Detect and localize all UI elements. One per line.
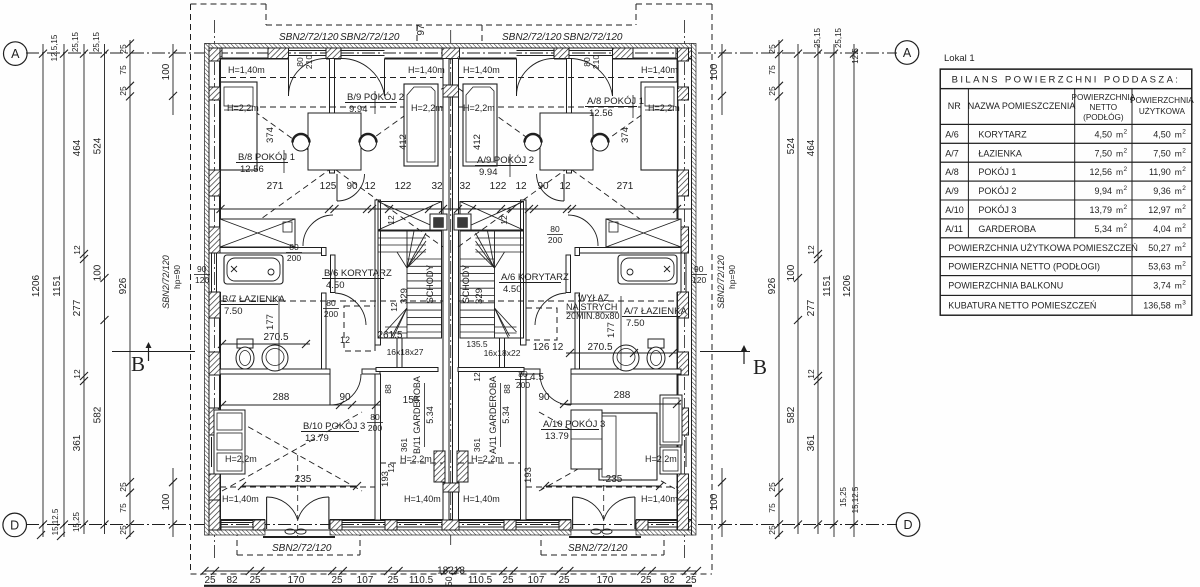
- marker circle A left: [4, 42, 28, 66]
- svg-text:15,12.5: 15,12.5: [51, 508, 60, 535]
- svg-text:100: 100: [709, 493, 720, 510]
- svg-text:120: 120: [195, 275, 209, 285]
- svg-text:25: 25: [118, 86, 128, 96]
- svg-text:2: 2: [1124, 204, 1128, 211]
- door arc A bathroom: [535, 293, 566, 325]
- dashed roof X unit B top rooms: [222, 88, 443, 247]
- svg-text:288: 288: [614, 390, 631, 401]
- dim chain 524/100/582 right: [786, 44, 802, 534]
- svg-text:hp=90: hp=90: [727, 265, 737, 289]
- svg-text:1206: 1206: [31, 274, 42, 297]
- door leaf A bathroom: [566, 255, 571, 293]
- svg-text:m: m: [1175, 129, 1182, 139]
- right wall insulation strip: [692, 44, 697, 536]
- svg-text:A: A: [903, 46, 912, 60]
- svg-text:H=2,2m: H=2,2m: [225, 454, 257, 464]
- SBN rotated label right margin: [716, 255, 737, 309]
- label B/7 LAZIENKA: [220, 294, 285, 317]
- svg-text:H=1,40m: H=1,40m: [641, 494, 678, 504]
- svg-text:200: 200: [368, 423, 382, 433]
- mid dim 135.5: [466, 339, 488, 349]
- chimney black square A: [454, 214, 471, 230]
- svg-text:12.56: 12.56: [240, 164, 264, 175]
- svg-text:B/8 POKÓJ 1: B/8 POKÓJ 1: [238, 152, 295, 163]
- roof height dashed line H=1.40 top rooms: [220, 77, 678, 79]
- svg-text:POKÓJ 2: POKÓJ 2: [978, 186, 1016, 196]
- svg-text:13,79: 13,79: [1089, 205, 1112, 215]
- wall A8 bottom: [575, 248, 681, 254]
- svg-text:210: 210: [304, 55, 314, 69]
- label A/10 POKOJ 3: [541, 419, 605, 442]
- svg-text:D: D: [10, 519, 19, 533]
- svg-text:H=1,40m: H=1,40m: [228, 65, 265, 75]
- svg-text:9,94: 9,94: [1094, 186, 1112, 196]
- table summary row 2: [940, 257, 1192, 276]
- svg-text:20MIN.80x80: 20MIN.80x80: [566, 311, 620, 321]
- svg-text:KORYTARZ: KORYTARZ: [978, 129, 1027, 139]
- svg-text:288: 288: [273, 392, 290, 403]
- svg-text:m: m: [1175, 243, 1182, 253]
- svg-text:SBN2/72/120: SBN2/72/120: [161, 255, 171, 309]
- label A/11 GARDEROBA rotated: [488, 376, 511, 454]
- svg-text:25: 25: [502, 575, 514, 586]
- svg-text:412: 412: [398, 134, 409, 150]
- SBN labels top B: [279, 32, 400, 43]
- dim 12 rotated misc: [386, 215, 509, 473]
- wall B garderoba top: [376, 368, 438, 372]
- svg-text:5.34: 5.34: [425, 406, 435, 424]
- svg-text:1151: 1151: [52, 275, 63, 297]
- svg-text:277: 277: [806, 299, 817, 316]
- dim chain 100 short top right: [709, 44, 726, 115]
- svg-text:412: 412: [472, 134, 483, 150]
- party wall double leaf: [443, 59, 459, 521]
- party wall axis vertical: [450, 30, 452, 545]
- label B/10 POKOJ 3: [301, 421, 365, 444]
- staircase B (schody): [378, 231, 442, 338]
- svg-text:53,63: 53,63: [1148, 262, 1171, 272]
- svg-text:25: 25: [767, 44, 777, 54]
- svg-text:361: 361: [399, 438, 409, 452]
- svg-text:m: m: [1116, 167, 1123, 177]
- label B/8 POKOJ 1: [236, 150, 295, 175]
- svg-text:270.5: 270.5: [263, 332, 288, 343]
- dim chain 1206 left: [31, 44, 47, 537]
- svg-text:170: 170: [288, 575, 305, 586]
- dim 193 rotated right: [380, 467, 534, 487]
- svg-text:12: 12: [559, 181, 571, 192]
- svg-text:32: 32: [431, 181, 443, 192]
- table row A/11: [940, 219, 1192, 238]
- svg-text:12: 12: [472, 372, 482, 382]
- svg-text:464: 464: [72, 139, 83, 156]
- wall B8 bottom: [220, 248, 326, 254]
- left wall body: [209, 48, 220, 535]
- window size 90/120 right: [691, 264, 707, 285]
- closet 90 rotated labels: [265, 225, 621, 235]
- svg-text:2: 2: [1124, 166, 1128, 173]
- svg-text:80: 80: [289, 242, 299, 252]
- svg-text:88: 88: [502, 384, 512, 394]
- dimension row y209: [209, 205, 691, 213]
- svg-text:12.5: 12.5: [851, 48, 860, 64]
- chimney black square B: [430, 214, 447, 230]
- svg-text:3,74: 3,74: [1153, 281, 1171, 291]
- axis line D (bottom): [26, 524, 897, 526]
- dim 90 200 rotated bath windows: [383, 384, 512, 394]
- svg-text:m: m: [1175, 186, 1182, 196]
- door arc B bathroom: [335, 293, 366, 325]
- table summary row 1: [940, 238, 1192, 257]
- bed B9: [404, 84, 438, 166]
- table row A/10: [940, 200, 1192, 219]
- svg-text:100: 100: [786, 264, 797, 281]
- svg-text:A/6: A/6: [945, 129, 959, 139]
- svg-text:2: 2: [1182, 261, 1186, 268]
- dim 361 rotated bottoms: [399, 438, 482, 452]
- svg-text:A/10: A/10: [945, 205, 964, 215]
- 177 rotated B: [265, 314, 276, 330]
- svg-text:25: 25: [685, 575, 697, 586]
- staircase A (schody): [460, 231, 524, 338]
- label B/6 KORYTARZ: [322, 268, 392, 291]
- closet B10: [214, 410, 245, 474]
- wall A7/A10 horizontal: [521, 369, 681, 374]
- svg-text:m: m: [1116, 205, 1123, 215]
- svg-text:2: 2: [1182, 242, 1186, 249]
- svg-text:B/11 GARDEROBA: B/11 GARDEROBA: [412, 376, 422, 454]
- svg-text:25: 25: [118, 44, 128, 54]
- SBN labels top A: [502, 32, 623, 43]
- svg-text:4.50: 4.50: [326, 280, 345, 291]
- door size 80/210 labels rotated top: [295, 55, 314, 72]
- svg-text:4.5: 4.5: [530, 372, 544, 383]
- marker circle D right: [896, 513, 920, 537]
- svg-text:m: m: [1175, 167, 1182, 177]
- 177 rotated A: [606, 322, 617, 338]
- SBN label bottom B: [272, 543, 332, 554]
- svg-text:SBN2/72/120: SBN2/72/120: [279, 32, 339, 43]
- svg-text:BILANS POWIERZCHNI PODDASZA:: BILANS POWIERZCHNI PODDASZA:: [952, 75, 1181, 86]
- wall B10/garderoba vertical: [375, 374, 381, 520]
- svg-text:H=2,2m: H=2,2m: [645, 454, 677, 464]
- dim 235 A10: [541, 474, 664, 490]
- svg-text:13.79: 13.79: [305, 433, 329, 444]
- svg-text:12: 12: [806, 369, 816, 379]
- svg-text:B/7 ŁAZIENKA: B/7 ŁAZIENKA: [222, 294, 285, 305]
- bed B8: [221, 82, 258, 170]
- toilet A7: [647, 339, 665, 369]
- svg-text:2: 2: [1182, 223, 1186, 230]
- svg-text:110.5: 110.5: [409, 575, 434, 586]
- svg-text:H=2,2m: H=2,2m: [648, 103, 680, 113]
- svg-text:H=1,40m: H=1,40m: [641, 65, 678, 75]
- svg-text:2: 2: [1182, 147, 1186, 154]
- svg-text:12: 12: [72, 245, 82, 255]
- svg-text:155: 155: [403, 395, 420, 406]
- svg-text:125: 125: [320, 181, 337, 192]
- mid dim right 270.5: [566, 342, 677, 357]
- dim chain 100 short bottom left: [161, 468, 177, 537]
- svg-text:25,15: 25,15: [92, 31, 101, 52]
- svg-text:SBN2/72/120: SBN2/72/120: [340, 32, 400, 43]
- balcony door B left leaf: [289, 59, 327, 97]
- svg-text:2: 2: [1182, 280, 1186, 287]
- svg-text:25: 25: [387, 575, 399, 586]
- left wall bathroom window: [212, 253, 217, 292]
- bottom wall windows: [221, 523, 253, 528]
- svg-text:m: m: [1175, 205, 1182, 215]
- dim chain 100 short bottom right: [709, 468, 726, 537]
- svg-text:3: 3: [1182, 299, 1186, 306]
- svg-text:7,50: 7,50: [1094, 148, 1112, 158]
- svg-text:15,12.5: 15,12.5: [851, 486, 860, 513]
- svg-text:SBN2/72/120: SBN2/72/120: [563, 32, 623, 43]
- svg-text:16x18x27: 16x18x27: [387, 347, 424, 357]
- top wall insulation strip: [205, 44, 693, 49]
- svg-text:75: 75: [767, 65, 777, 75]
- wall axis left vertical: [214, 20, 216, 560]
- svg-text:100: 100: [161, 493, 172, 510]
- stair spine continuation B: [397, 338, 402, 368]
- svg-text:A/7 ŁAZIENKA: A/7 ŁAZIENKA: [624, 306, 687, 317]
- svg-text:926: 926: [767, 277, 778, 294]
- svg-text:122: 122: [490, 181, 507, 192]
- svg-text:75: 75: [118, 65, 128, 75]
- svg-text:7.50: 7.50: [626, 318, 645, 329]
- svg-text:25,15: 25,15: [813, 27, 822, 48]
- svg-text:POKÓJ 1: POKÓJ 1: [978, 167, 1016, 177]
- label B/11 GARDEROBA rotated: [412, 376, 435, 454]
- svg-text:235: 235: [295, 474, 312, 485]
- section mark B right: [700, 345, 767, 379]
- label SCHODY B rotated: [425, 265, 435, 304]
- svg-text:120: 120: [692, 275, 706, 285]
- tiny labels bottom left: [37, 508, 81, 540]
- label A/9 POKOJ 2: [475, 154, 534, 178]
- void railing X-rect A: [460, 202, 524, 231]
- svg-text:Lokal 1: Lokal 1: [944, 53, 975, 64]
- svg-text:25: 25: [118, 525, 128, 535]
- svg-text:464: 464: [806, 139, 817, 156]
- label 329 A rotated: [474, 288, 485, 304]
- svg-text:90: 90: [339, 392, 351, 403]
- top wall hatched piers: [205, 48, 222, 59]
- svg-text:SCHODY: SCHODY: [461, 265, 471, 304]
- stair spine continuation A: [500, 338, 505, 368]
- svg-text:UŻYTKOWA: UŻYTKOWA: [1139, 106, 1186, 116]
- table row A/6: [940, 124, 1192, 143]
- svg-text:A/6 KORYTARZ: A/6 KORYTARZ: [501, 272, 569, 283]
- svg-text:2: 2: [1124, 147, 1128, 154]
- mid dim 261.5: [377, 330, 402, 341]
- desk A with chairs: [525, 113, 609, 170]
- party wall chimney block top: [442, 48, 460, 59]
- bottom dim line: [201, 567, 702, 575]
- closet X A8: [606, 219, 681, 247]
- svg-text:SCHODY: SCHODY: [425, 265, 435, 304]
- svg-text:NETTO: NETTO: [1090, 103, 1118, 112]
- bottom heavy line: [204, 585, 692, 587]
- svg-text:ŁAZIENKA: ŁAZIENKA: [978, 148, 1022, 158]
- svg-text:H=1,40m: H=1,40m: [463, 494, 500, 504]
- svg-text:12: 12: [389, 302, 399, 312]
- toilet B7: [236, 339, 254, 369]
- svg-text:H=1,40m: H=1,40m: [463, 65, 500, 75]
- svg-text:POWIERZCHNIA BALKONU: POWIERZCHNIA BALKONU: [948, 281, 1063, 291]
- svg-text:177: 177: [606, 322, 617, 338]
- svg-text:A/10 POKÓJ 3: A/10 POKÓJ 3: [543, 419, 605, 430]
- closet right wall A10 upper: [660, 395, 682, 445]
- svg-text:25: 25: [767, 86, 777, 96]
- top wall body: [205, 48, 693, 59]
- svg-text:12: 12: [386, 463, 396, 473]
- svg-text:H=2,2m: H=2,2m: [463, 103, 495, 113]
- dim 235 B10: [238, 474, 361, 490]
- wall A10/garderoba vertical: [521, 374, 527, 520]
- attic hatch dashed square A: [526, 308, 557, 340]
- wall B corridor left: [322, 248, 327, 375]
- svg-text:25: 25: [204, 575, 216, 586]
- bathtub A7: [618, 255, 677, 284]
- door A garderoba: [540, 374, 571, 405]
- wall B stairs left: [375, 200, 381, 345]
- bed A10: [599, 413, 657, 480]
- svg-text:100: 100: [161, 63, 172, 80]
- table outer border: [940, 69, 1192, 315]
- mid dim row left 270.5: [218, 332, 310, 348]
- dim chain 464/12/277/12/361 left: [72, 44, 88, 534]
- svg-text:2: 2: [1124, 185, 1128, 192]
- bed A9: [463, 84, 497, 166]
- svg-text:582: 582: [786, 406, 797, 423]
- garderoba dashed line y463: [380, 462, 520, 464]
- extension line bathroom B: [278, 296, 280, 370]
- svg-text:82: 82: [226, 575, 238, 586]
- svg-text:POKÓJ 3: POKÓJ 3: [978, 205, 1016, 215]
- svg-text:H=2,2m: H=2,2m: [227, 103, 259, 113]
- svg-text:A/11 GARDEROBA: A/11 GARDEROBA: [488, 376, 498, 454]
- chimney dashed channel with 97 label: [416, 24, 482, 43]
- svg-text:210: 210: [591, 55, 601, 69]
- svg-text:25: 25: [331, 575, 343, 586]
- svg-text:329: 329: [399, 288, 410, 304]
- door size 80/200 labels: [286, 242, 302, 263]
- svg-text:4,50: 4,50: [1153, 129, 1171, 139]
- door B garderoba: [330, 374, 361, 405]
- svg-text:235: 235: [606, 474, 623, 485]
- tiny labels top left: [50, 31, 101, 61]
- svg-text:12: 12: [515, 181, 527, 192]
- mid dim 16x18x22: [484, 348, 521, 358]
- dim chain 1151 right: [822, 44, 838, 537]
- svg-text:12: 12: [340, 335, 350, 345]
- mid dim 16x18x27: [387, 347, 424, 357]
- svg-text:7.50: 7.50: [224, 306, 243, 317]
- svg-text:POWIERZCHNIA UŻYTKOWA POMIESZC: POWIERZCHNIA UŻYTKOWA POMIESZCZEŃ: [948, 243, 1138, 253]
- svg-text:POWIERZCHNIA: POWIERZCHNIA: [1130, 96, 1194, 105]
- svg-text:25,15: 25,15: [834, 27, 843, 48]
- svg-text:2: 2: [1182, 128, 1186, 135]
- svg-text:1151: 1151: [822, 275, 833, 297]
- svg-text:4,04: 4,04: [1153, 224, 1171, 234]
- svg-text:A: A: [11, 47, 20, 61]
- 412 rotated dim B9: [398, 134, 409, 150]
- svg-text:A/11: A/11: [945, 224, 963, 234]
- bottom wall hatched piers: [205, 520, 221, 530]
- svg-text:271: 271: [267, 181, 284, 192]
- svg-text:200: 200: [287, 253, 301, 263]
- svg-text:122: 122: [395, 181, 412, 192]
- 374 rotated dim B8: [265, 127, 276, 143]
- svg-text:A/9 POKÓJ 2: A/9 POKÓJ 2: [477, 155, 534, 166]
- tiny labels bottom right: [839, 486, 860, 513]
- svg-text:A/7: A/7: [945, 148, 959, 158]
- svg-text:100: 100: [93, 264, 104, 281]
- svg-text:374: 374: [265, 127, 276, 143]
- svg-text:270.5: 270.5: [587, 342, 612, 353]
- roof envelope dashed outline: [191, 4, 713, 574]
- svg-text:13.79: 13.79: [545, 431, 569, 442]
- svg-text:12: 12: [364, 181, 376, 192]
- svg-text:12.5,15: 12.5,15: [50, 34, 59, 61]
- svg-text:H=2,2m: H=2,2m: [471, 454, 503, 464]
- axis line A (top): [26, 52, 897, 54]
- SBN label bottom A: [568, 543, 628, 554]
- svg-text:15,25: 15,25: [839, 486, 848, 507]
- svg-text:9.94: 9.94: [479, 167, 498, 178]
- party wall chimney block upper: [443, 85, 459, 97]
- dashed roof X unit A top rooms: [458, 88, 679, 247]
- porch dashed outline right entrance: [541, 530, 664, 555]
- svg-text:90: 90: [346, 181, 358, 192]
- svg-text:12,97: 12,97: [1148, 205, 1171, 215]
- door B8 room: [303, 215, 333, 246]
- svg-text:2: 2: [1124, 223, 1128, 230]
- svg-text:12.56: 12.56: [589, 108, 613, 119]
- svg-text:2: 2: [1182, 204, 1186, 211]
- table summary row 3: [940, 276, 1192, 296]
- svg-text:97: 97: [416, 24, 427, 36]
- left wall hatched piers: [209, 48, 220, 61]
- bottom total labels 18218 1150: [437, 566, 465, 587]
- wall A corridor right: [575, 248, 580, 375]
- bottom wall insulation strip: [205, 530, 693, 535]
- table summary row 4: [940, 295, 1192, 315]
- left wall B10 window: [212, 437, 217, 467]
- svg-text:SBN2/72/120: SBN2/72/120: [716, 255, 726, 309]
- svg-text:m: m: [1175, 300, 1182, 310]
- svg-text:50,27: 50,27: [1148, 243, 1171, 253]
- svg-text:25: 25: [249, 575, 261, 586]
- wall A8/A9 divider: [567, 59, 572, 174]
- svg-text:200: 200: [548, 235, 562, 245]
- svg-text:GARDEROBA: GARDEROBA: [978, 224, 1036, 234]
- svg-text:2: 2: [1182, 166, 1186, 173]
- marker circle D left: [3, 513, 27, 537]
- long dashed line mid plan: [220, 300, 678, 302]
- svg-text:B/10 POKÓJ 3: B/10 POKÓJ 3: [303, 421, 365, 432]
- wall B8/B9 divider: [330, 59, 335, 174]
- section mark B left: [112, 342, 195, 376]
- svg-text:75: 75: [118, 503, 128, 513]
- right wall hatched piers: [678, 48, 689, 61]
- svg-text:12: 12: [806, 245, 816, 255]
- dashed roof X B10: [222, 412, 362, 491]
- svg-text:16x18x22: 16x18x22: [484, 348, 521, 358]
- svg-text:32: 32: [459, 181, 471, 192]
- svg-text:H=1,40m: H=1,40m: [408, 65, 445, 75]
